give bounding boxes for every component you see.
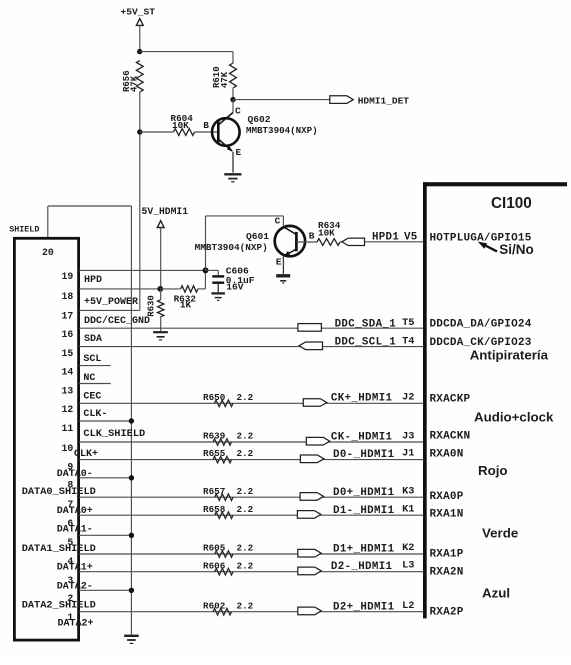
svg-text:DATA2_SHIELD: DATA2_SHIELD [22, 599, 96, 611]
resistor R602 label [203, 600, 254, 611]
Q602 pin label B [203, 120, 209, 131]
IC CI100 top edge [423, 182, 567, 186]
net tag HPD1 [342, 238, 365, 245]
svg-text:DDC_SDA_1: DDC_SDA_1 [335, 318, 397, 330]
svg-text:Verde: Verde [482, 526, 518, 541]
svg-text:HPD: HPD [84, 275, 102, 286]
svg-text:K3: K3 [402, 486, 414, 498]
net tag D2-_HDMI1 [298, 567, 322, 575]
svg-text:2.2: 2.2 [237, 448, 254, 459]
svg-text:D0-_HDMI1: D0-_HDMI1 [333, 449, 395, 461]
wire [79, 441, 423, 443]
connector SHIELD label [9, 224, 39, 234]
Q601 ref label [246, 231, 269, 242]
resistor R658 [215, 512, 233, 519]
resistor R656 label [122, 70, 140, 92]
svg-text:R650: R650 [203, 392, 226, 403]
wire [79, 553, 423, 555]
svg-text:DATA1_SHIELD: DATA1_SHIELD [22, 543, 96, 555]
resistor R650 label [203, 392, 254, 403]
net tag DDC_SDA_1 [298, 324, 322, 332]
svg-text:B: B [309, 231, 315, 242]
svg-text:MMBT3904(NXP): MMBT3904(NXP) [195, 242, 268, 253]
power 5V_HDMI1 label [142, 206, 189, 217]
net label D2+_HDMI1 L2 [333, 600, 414, 613]
net label HDMI1_DET [358, 95, 410, 106]
svg-text:T4: T4 [402, 335, 414, 347]
svg-text:19: 19 [62, 271, 74, 282]
wire pin6 DATA1- row [79, 534, 131, 536]
Q602 pin label C [235, 105, 241, 116]
svg-text:RXA2N: RXA2N [430, 566, 464, 578]
svg-text:D1+_HDMI1: D1+_HDMI1 [333, 543, 395, 555]
svg-text:47K: 47K [220, 71, 230, 88]
annotation Si/No [499, 242, 534, 257]
wire [79, 514, 423, 516]
svg-text:HDMI1_DET: HDMI1_DET [358, 95, 410, 106]
svg-text:CLK+: CLK+ [74, 449, 98, 460]
resistor R658 label [203, 504, 254, 515]
wire [139, 25, 141, 51]
svg-text:E: E [236, 147, 242, 158]
resistor R606 label [203, 560, 254, 571]
connector pin numbers [62, 271, 74, 623]
svg-text:RXACKP: RXACKP [430, 393, 471, 405]
Q602 part label [246, 125, 318, 136]
Q601 pin label E [276, 256, 282, 267]
node DATA1- bus junction [129, 533, 134, 538]
svg-text:B: B [203, 120, 209, 131]
svg-text:D2+_HDMI1: D2+_HDMI1 [333, 601, 395, 613]
resistor R655 label [203, 448, 254, 459]
svg-text:2.2: 2.2 [237, 543, 254, 554]
net label HPD1 V5 [372, 231, 418, 243]
svg-text:J1: J1 [402, 448, 414, 460]
svg-text:RXA0N: RXA0N [430, 448, 464, 460]
svg-text:11: 11 [62, 423, 74, 434]
resistor R650 [215, 400, 234, 407]
wire [140, 51, 233, 53]
net label D0-_HDMI1 J1 [333, 448, 414, 461]
node DATA2- bus junction [129, 588, 134, 593]
Q602 pin label E [236, 147, 242, 158]
net label D2-_HDMI1 L3 [331, 560, 415, 573]
svg-text:Rojo: Rojo [478, 463, 508, 478]
node R604 junction [137, 129, 142, 134]
svg-text:D2-_HDMI1: D2-_HDMI1 [331, 561, 393, 573]
svg-text:V5: V5 [404, 231, 418, 243]
power +5V_ST label [121, 7, 156, 18]
wire [140, 131, 174, 133]
wire pin9 DATA0- row [79, 477, 131, 479]
ground R630 [153, 332, 168, 340]
net tag D0-_HDMI1 [300, 455, 324, 463]
connector pin names [22, 275, 150, 630]
svg-text:K2: K2 [402, 542, 414, 554]
svg-text:MMBT3904(NXP): MMBT3904(NXP) [246, 125, 318, 136]
svg-text:5V_HDMI1: 5V_HDMI1 [142, 206, 189, 217]
svg-text:1K: 1K [180, 300, 192, 311]
wire [340, 241, 342, 243]
svg-text:DDC_SCL_1: DDC_SCL_1 [335, 337, 397, 349]
svg-text:NC: NC [83, 373, 95, 384]
resistor R606 [215, 568, 233, 575]
svg-text:CLK-: CLK- [83, 409, 107, 420]
IC CI100 name [491, 195, 532, 212]
svg-text:L3: L3 [402, 560, 414, 572]
svg-text:Azul: Azul [482, 586, 510, 601]
net label D0+_HDMI1 K3 [333, 486, 414, 499]
svg-text:20: 20 [42, 247, 54, 258]
ground shield bus [124, 636, 139, 644]
wire [79, 402, 423, 404]
net tag CK-_HDMI1 [306, 437, 330, 445]
svg-text:17: 17 [62, 310, 74, 321]
svg-text:18: 18 [62, 291, 74, 302]
Q601 part label [195, 242, 268, 253]
svg-text:CI100: CI100 [491, 195, 532, 212]
svg-text:DDC/CEC_GND: DDC/CEC_GND [84, 315, 150, 327]
resistor R602 [213, 608, 232, 615]
svg-text:SDA: SDA [84, 334, 102, 345]
resistor R610 [230, 63, 237, 88]
svg-text:DATA2+: DATA2+ [58, 619, 94, 630]
IC CI100 pin labels [430, 233, 532, 619]
wire [160, 289, 162, 331]
node 5V junction [157, 286, 163, 292]
net label CK-_HDMI1 J3 [331, 430, 415, 443]
net tag DDC_SCL_1 [299, 342, 323, 350]
capacitor C606 [212, 276, 224, 292]
IC CI100 left edge [423, 182, 427, 618]
net tag CK+_HDMI1 [303, 399, 327, 407]
resistor R639 label [203, 431, 254, 442]
svg-text:SHIELD: SHIELD [9, 224, 39, 234]
annotation Azul [482, 586, 510, 601]
svg-text:Q601: Q601 [246, 231, 269, 242]
svg-text:R639: R639 [203, 431, 226, 442]
svg-text:R605: R605 [203, 543, 226, 554]
annotation arrow [478, 242, 497, 252]
svg-text:+5V_ST: +5V_ST [121, 7, 156, 18]
wire [365, 241, 424, 243]
net tag D0+_HDMI1 [300, 493, 324, 501]
wire pin19 HPD row [79, 269, 206, 271]
svg-text:D0+_HDMI1: D0+_HDMI1 [333, 487, 395, 499]
svg-text:2.2: 2.2 [237, 560, 254, 571]
Q601 pin label C [275, 215, 281, 226]
resistor R656 [136, 61, 143, 93]
svg-text:RXA2P: RXA2P [430, 606, 464, 618]
wire pin17 DDC gnd row [79, 309, 140, 311]
net label DDC_SCL_1 T4 [335, 335, 415, 348]
wire pin15 SCL stub [79, 365, 111, 367]
svg-text:Antipiratería: Antipiratería [470, 348, 549, 363]
resistor R604 [174, 129, 195, 136]
wire [233, 99, 330, 101]
svg-text:E: E [276, 256, 282, 267]
svg-text:13: 13 [62, 385, 74, 396]
ground C606 [211, 293, 225, 300]
net tag HDMI1_DET [330, 96, 354, 104]
svg-text:DATA0_SHIELD: DATA0_SHIELD [22, 486, 96, 498]
svg-text:CLK_SHIELD: CLK_SHIELD [83, 428, 145, 440]
net tag D1-_HDMI1 [297, 511, 321, 519]
net tag D1+_HDMI1 [298, 549, 322, 557]
svg-text:DDCDA_DA/GPIO24: DDCDA_DA/GPIO24 [430, 319, 532, 331]
svg-text:R658: R658 [203, 504, 226, 515]
svg-text:J3: J3 [402, 430, 414, 442]
annotation Verde [482, 526, 518, 541]
wire [206, 270, 219, 275]
svg-text:2.2: 2.2 [237, 431, 254, 442]
svg-text:12: 12 [62, 404, 74, 415]
wire [79, 346, 423, 348]
resistor R655 [213, 456, 232, 463]
svg-text:HPD1: HPD1 [372, 231, 399, 243]
svg-text:16: 16 [62, 329, 74, 340]
svg-text:2.2: 2.2 [237, 486, 254, 497]
wire [198, 270, 206, 289]
resistor R639 [213, 439, 232, 446]
wire [79, 327, 423, 329]
resistor R610 label [212, 66, 230, 88]
svg-text:SCL: SCL [83, 354, 101, 365]
net label D1+_HDMI1 K2 [333, 542, 414, 555]
power +5V_ST symbol [136, 19, 143, 26]
svg-text:15: 15 [62, 348, 74, 359]
ground Q601 emitter [276, 276, 290, 283]
ground Q602 emitter [224, 174, 241, 182]
wire [232, 88, 234, 100]
svg-text:2.2: 2.2 [237, 504, 254, 515]
node CLK- bus junction [129, 418, 134, 423]
svg-text:10: 10 [62, 443, 74, 454]
svg-text:R630: R630 [146, 295, 156, 317]
svg-text:L2: L2 [402, 600, 414, 612]
svg-text:J2: J2 [402, 391, 414, 403]
Q602 ref label [248, 114, 271, 125]
wire [79, 459, 423, 461]
wire [232, 52, 234, 63]
node HPD junction [203, 267, 209, 273]
svg-text:Audio+clock: Audio+clock [474, 410, 554, 425]
annotation Rojo [478, 463, 508, 478]
svg-text:10K: 10K [318, 228, 335, 239]
svg-text:C: C [275, 215, 281, 226]
wire [79, 571, 423, 573]
resistor R630 label [146, 295, 156, 317]
resistor R604 label [171, 113, 194, 131]
resistor R657 label [203, 486, 254, 497]
HDMI connector box [14, 238, 78, 640]
wire [160, 288, 180, 290]
resistor R657 [215, 494, 233, 501]
svg-text:RXA1P: RXA1P [430, 548, 464, 560]
wire pin3 DATA2- row [79, 589, 131, 591]
svg-text:10K: 10K [172, 120, 189, 131]
svg-text:RXACKN: RXACKN [430, 430, 471, 442]
wire [79, 611, 423, 613]
power 5V_HDMI1 symbol [157, 221, 164, 228]
node DATA0- bus junction [129, 475, 134, 480]
wire [195, 131, 218, 133]
svg-text:CEC: CEC [83, 391, 101, 402]
svg-text:CK-_HDMI1: CK-_HDMI1 [331, 432, 393, 444]
svg-text:16V: 16V [226, 282, 244, 293]
resistor R630 [158, 300, 164, 317]
svg-text:2.2: 2.2 [237, 600, 254, 611]
wire [79, 496, 423, 498]
svg-text:RXA0P: RXA0P [430, 491, 464, 503]
svg-text:R655: R655 [203, 448, 226, 459]
capacitor C606 labels [226, 265, 255, 292]
connector pin 20 number [42, 247, 54, 258]
wire [139, 92, 141, 310]
svg-text:Q602: Q602 [248, 114, 271, 125]
node collector junction [230, 97, 235, 102]
svg-text:R606: R606 [203, 560, 226, 571]
wire pin18 5V row [79, 288, 160, 290]
svg-text:C: C [235, 105, 241, 116]
svg-text:+5V_POWER: +5V_POWER [84, 297, 138, 308]
resistor R605 [215, 551, 233, 558]
svg-text:Si/No: Si/No [499, 242, 534, 257]
net label D1-_HDMI1 K1 [333, 504, 414, 517]
resistor R634 [317, 239, 340, 246]
wire [206, 216, 284, 271]
svg-text:T5: T5 [402, 317, 414, 329]
net label DDC_SDA_1 T5 [335, 317, 415, 330]
transistor Q602 [212, 100, 240, 173]
svg-text:R657: R657 [203, 486, 225, 497]
svg-text:R602: R602 [203, 600, 226, 611]
resistor R632 [181, 286, 198, 292]
net tag D2+_HDMI1 [298, 607, 322, 615]
shield bus wire [48, 206, 132, 635]
Q601 pin label B [309, 231, 315, 242]
annotation Audio+clock [474, 410, 554, 425]
annotation Antipirateria [470, 348, 549, 363]
svg-text:2.2: 2.2 [237, 392, 254, 403]
svg-text:DATA1-: DATA1- [57, 525, 93, 536]
resistor R634 label [318, 220, 341, 239]
net label CK+_HDMI1 J2 [331, 391, 415, 404]
wire pin14 NC stub [79, 383, 111, 385]
svg-text:RXA1N: RXA1N [430, 508, 464, 520]
svg-text:47K: 47K [130, 75, 140, 92]
svg-text:D1-_HDMI1: D1-_HDMI1 [333, 505, 395, 517]
resistor R632 label [174, 293, 197, 310]
resistor R605 label [203, 543, 254, 554]
node junction top [137, 49, 142, 54]
svg-text:K1: K1 [402, 504, 414, 516]
wire [296, 241, 317, 243]
transistor Q601 [275, 216, 305, 274]
svg-text:14: 14 [62, 367, 74, 378]
svg-text:CK+_HDMI1: CK+_HDMI1 [331, 393, 393, 405]
wire pin12 CLK- row [79, 420, 131, 422]
wire [160, 228, 162, 289]
